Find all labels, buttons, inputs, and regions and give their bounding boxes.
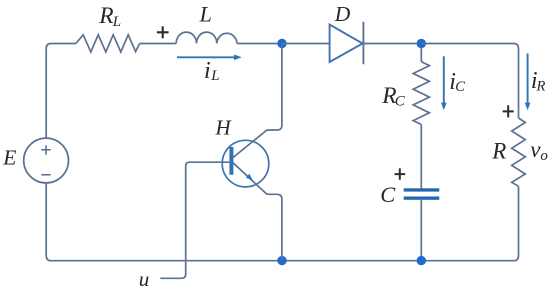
resistor R_C (413, 62, 429, 125)
arrow i_L (177, 55, 242, 61)
wire: collector to node A (233, 44, 282, 158)
wire: emitter to bottom rail (233, 163, 282, 261)
svg-text:D: D (334, 2, 351, 26)
svg-text:L: L (210, 68, 219, 84)
wire: source top to R_L (46, 44, 76, 139)
capacitor C (404, 188, 440, 200)
svg-text:R: R (98, 3, 113, 29)
svg-text:H: H (215, 116, 233, 140)
wire: R to bottom rail corner (514, 186, 519, 261)
arrow i_C (441, 56, 447, 110)
plus label at inductor (157, 26, 169, 38)
inductor L (176, 32, 237, 43)
wire: R_L to L (140, 43, 177, 45)
transistor H circle (222, 140, 269, 187)
svg-text:R: R (536, 78, 546, 94)
resistor R_L (76, 35, 140, 52)
node B (417, 39, 426, 48)
node A (277, 39, 286, 48)
plus label at capacitor (395, 168, 406, 179)
wire: node A to diode (282, 43, 330, 45)
emitter arrow (246, 174, 253, 181)
svg-text:L: L (199, 1, 212, 26)
voltage source E (24, 138, 69, 183)
svg-text:u: u (139, 267, 150, 291)
wire: capacitor to bottom rail (420, 200, 422, 261)
wire: diode to node B (363, 43, 421, 45)
arrow i_R (525, 54, 531, 111)
node C (capacitor/rail) (417, 256, 426, 265)
svg-text:o: o (540, 148, 548, 164)
svg-text:C: C (395, 94, 406, 110)
svg-text:i: i (204, 58, 211, 84)
svg-text:C: C (455, 79, 465, 95)
svg-text:L: L (112, 14, 121, 30)
wire: node B to right branch top corner (421, 44, 518, 119)
svg-text:E: E (2, 146, 16, 170)
transistor base bar (229, 147, 233, 175)
wire: bottom rail from source (46, 183, 513, 261)
plus label at R (503, 105, 514, 117)
wire: L to node A (237, 43, 282, 45)
node D (emitter/rail) (277, 256, 286, 265)
wire: node B down to R_C (420, 47, 422, 62)
resistor R (512, 118, 526, 186)
diode D (330, 22, 364, 64)
wire: R_C to capacitor (420, 125, 422, 189)
wire: u drive line to base (160, 162, 229, 278)
svg-text:C: C (380, 182, 396, 207)
svg-text:R: R (491, 139, 506, 164)
